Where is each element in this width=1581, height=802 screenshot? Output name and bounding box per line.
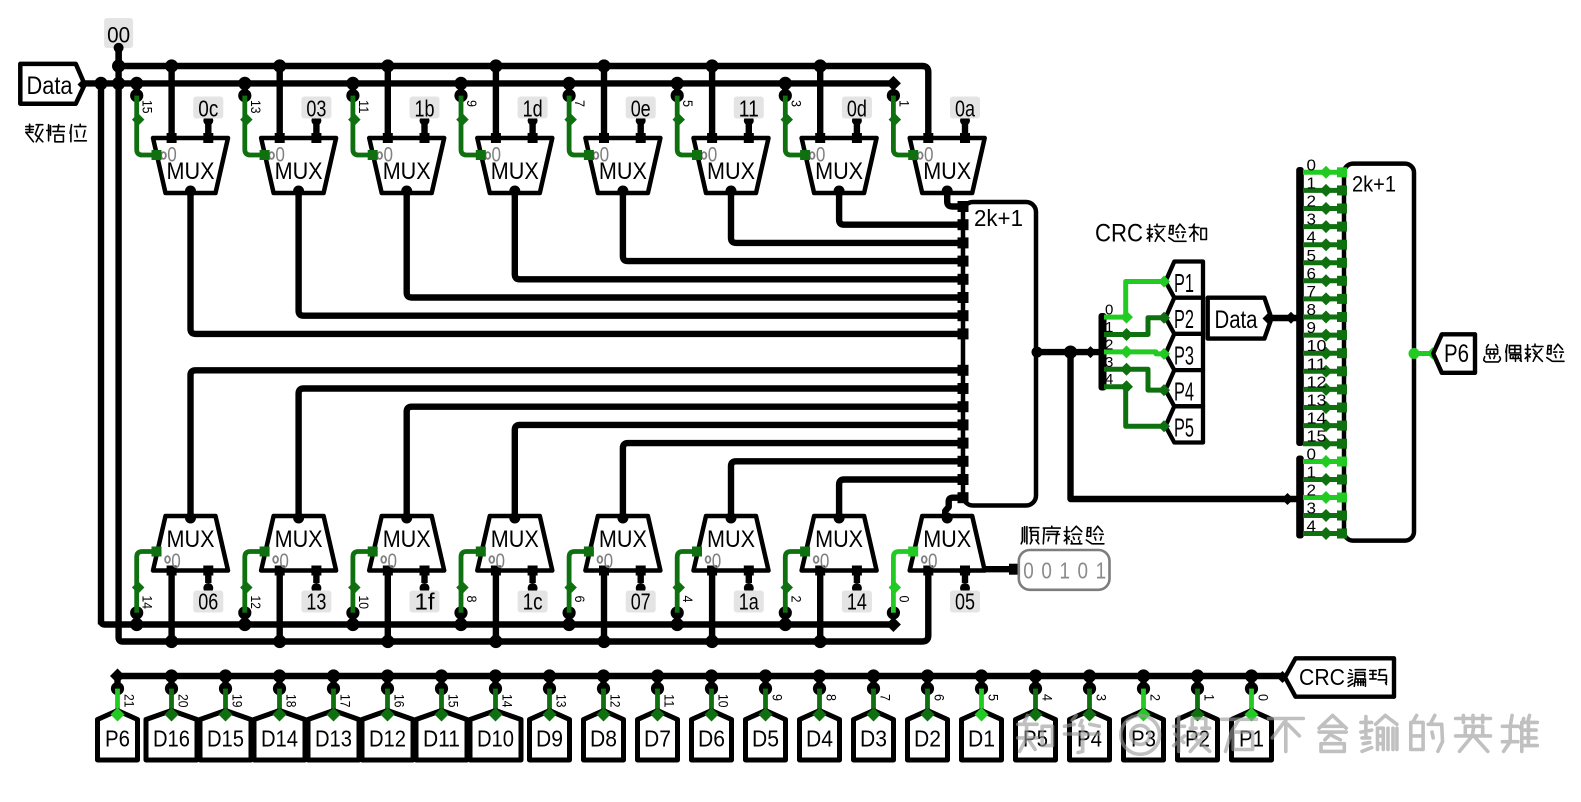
svg-text:D5: D5 bbox=[752, 726, 779, 752]
svg-text:4: 4 bbox=[1040, 694, 1056, 701]
svg-text:CRC: CRC bbox=[1095, 220, 1143, 248]
svg-text:MUX: MUX bbox=[491, 158, 539, 185]
svg-text:D1: D1 bbox=[968, 726, 995, 752]
svg-text:05: 05 bbox=[955, 589, 975, 615]
svg-text:16: 16 bbox=[392, 694, 408, 708]
svg-text:9: 9 bbox=[1307, 320, 1317, 337]
svg-text:6: 6 bbox=[932, 694, 948, 701]
svg-text:D9: D9 bbox=[536, 726, 563, 752]
svg-text:MUX: MUX bbox=[167, 158, 215, 185]
svg-text:5: 5 bbox=[680, 100, 696, 107]
svg-text:0: 0 bbox=[1023, 558, 1034, 584]
svg-text:11: 11 bbox=[739, 96, 759, 122]
svg-text:3: 3 bbox=[788, 100, 804, 107]
svg-text:1: 1 bbox=[1105, 319, 1113, 336]
svg-text:Data: Data bbox=[1215, 306, 1258, 334]
svg-text:D11: D11 bbox=[423, 726, 460, 752]
svg-text:D7: D7 bbox=[644, 726, 671, 752]
svg-text:1: 1 bbox=[1202, 694, 1218, 701]
svg-text:MUX: MUX bbox=[923, 158, 971, 185]
svg-text:12: 12 bbox=[608, 694, 624, 708]
svg-text:8: 8 bbox=[1307, 302, 1317, 319]
svg-text:1c: 1c bbox=[523, 589, 543, 615]
svg-text:2k+1: 2k+1 bbox=[1352, 172, 1396, 197]
svg-text:MUX: MUX bbox=[923, 526, 971, 553]
svg-text:P3: P3 bbox=[1174, 340, 1194, 370]
svg-text:4: 4 bbox=[1105, 371, 1113, 388]
svg-text:D13: D13 bbox=[315, 726, 352, 752]
svg-text:10: 10 bbox=[716, 694, 732, 708]
svg-text:D14: D14 bbox=[261, 726, 298, 752]
svg-text:2: 2 bbox=[1148, 694, 1164, 701]
svg-text:D3: D3 bbox=[860, 726, 887, 752]
svg-text:1: 1 bbox=[1307, 175, 1317, 192]
svg-text:0c: 0c bbox=[198, 96, 218, 122]
svg-text:15: 15 bbox=[140, 100, 156, 114]
svg-text:MUX: MUX bbox=[275, 158, 323, 185]
svg-text:1: 1 bbox=[1307, 465, 1317, 482]
svg-text:D12: D12 bbox=[369, 726, 406, 752]
svg-text:D10: D10 bbox=[477, 726, 514, 752]
svg-text:P4: P4 bbox=[1174, 377, 1194, 407]
svg-text:2k+1: 2k+1 bbox=[974, 205, 1023, 231]
svg-text:P2: P2 bbox=[1174, 304, 1194, 334]
svg-text:12: 12 bbox=[1307, 374, 1327, 391]
svg-text:MUX: MUX bbox=[275, 526, 323, 553]
svg-text:D4: D4 bbox=[806, 726, 833, 752]
svg-text:0: 0 bbox=[1307, 157, 1317, 174]
svg-text:0d: 0d bbox=[847, 96, 867, 122]
svg-text:D2: D2 bbox=[914, 726, 941, 752]
svg-text:0a: 0a bbox=[955, 96, 975, 122]
svg-text:0: 0 bbox=[1307, 447, 1317, 464]
svg-text:8: 8 bbox=[824, 694, 840, 701]
svg-text:13: 13 bbox=[1307, 393, 1327, 410]
svg-text:2: 2 bbox=[788, 596, 804, 603]
svg-text:14: 14 bbox=[500, 694, 516, 708]
svg-text:MUX: MUX bbox=[599, 158, 647, 185]
svg-text:1: 1 bbox=[1096, 558, 1107, 584]
svg-text:13: 13 bbox=[554, 694, 570, 708]
svg-text:MUX: MUX bbox=[491, 526, 539, 553]
svg-text:4: 4 bbox=[1307, 519, 1317, 536]
svg-text:10: 10 bbox=[1307, 338, 1327, 355]
svg-text:10: 10 bbox=[356, 596, 372, 610]
svg-text:MUX: MUX bbox=[383, 158, 431, 185]
svg-text:0: 0 bbox=[1105, 302, 1113, 319]
svg-text:P4: P4 bbox=[1077, 726, 1102, 752]
svg-text:1b: 1b bbox=[415, 96, 435, 122]
svg-text:11: 11 bbox=[662, 694, 678, 708]
svg-text:MUX: MUX bbox=[815, 526, 863, 553]
svg-text:2: 2 bbox=[1105, 336, 1113, 353]
svg-text:D8: D8 bbox=[590, 726, 617, 752]
svg-text:13: 13 bbox=[248, 100, 264, 114]
svg-text:20: 20 bbox=[176, 694, 192, 708]
svg-text:5: 5 bbox=[1307, 248, 1317, 265]
svg-text:D16: D16 bbox=[153, 726, 190, 752]
svg-text:7: 7 bbox=[878, 694, 894, 701]
svg-text:Data: Data bbox=[27, 72, 73, 100]
svg-text:0: 0 bbox=[1256, 694, 1272, 701]
svg-text:21: 21 bbox=[122, 694, 138, 708]
svg-text:MUX: MUX bbox=[383, 526, 431, 553]
svg-text:0e: 0e bbox=[631, 96, 651, 122]
svg-text:13: 13 bbox=[306, 589, 326, 615]
svg-text:3: 3 bbox=[1094, 694, 1110, 701]
svg-text:15: 15 bbox=[1307, 429, 1327, 446]
svg-text:07: 07 bbox=[631, 589, 651, 615]
svg-text:4: 4 bbox=[680, 596, 696, 603]
svg-text:14: 14 bbox=[140, 596, 156, 610]
svg-text:7: 7 bbox=[572, 100, 588, 107]
svg-text:03: 03 bbox=[306, 96, 326, 122]
svg-text:2: 2 bbox=[1307, 483, 1317, 500]
svg-text:P5: P5 bbox=[1174, 413, 1194, 443]
svg-text:3: 3 bbox=[1307, 212, 1317, 229]
svg-text:MUX: MUX bbox=[707, 158, 755, 185]
svg-text:6: 6 bbox=[572, 596, 588, 603]
svg-text:3: 3 bbox=[1307, 501, 1317, 518]
svg-text:0: 0 bbox=[1078, 558, 1089, 584]
svg-text:MUX: MUX bbox=[707, 526, 755, 553]
svg-text:1a: 1a bbox=[739, 589, 759, 615]
svg-text:MUX: MUX bbox=[599, 526, 647, 553]
svg-text:0: 0 bbox=[896, 596, 912, 603]
svg-text:12: 12 bbox=[248, 596, 264, 610]
svg-text:MUX: MUX bbox=[167, 526, 215, 553]
svg-text:17: 17 bbox=[338, 694, 354, 708]
svg-text:6: 6 bbox=[1307, 266, 1317, 283]
svg-text:1f: 1f bbox=[415, 589, 436, 615]
svg-text:4: 4 bbox=[1307, 230, 1317, 247]
svg-text:0: 0 bbox=[1041, 558, 1052, 584]
svg-text:2: 2 bbox=[1307, 194, 1317, 211]
svg-text:7: 7 bbox=[1307, 284, 1317, 301]
svg-text:D15: D15 bbox=[207, 726, 244, 752]
svg-text:18: 18 bbox=[284, 694, 300, 708]
svg-text:P1: P1 bbox=[1174, 268, 1194, 298]
svg-text:9: 9 bbox=[464, 100, 480, 107]
svg-text:19: 19 bbox=[230, 694, 246, 708]
svg-text:15: 15 bbox=[446, 694, 462, 708]
svg-text:P6: P6 bbox=[1444, 340, 1469, 368]
svg-text:CRC: CRC bbox=[1299, 664, 1345, 690]
svg-text:MUX: MUX bbox=[815, 158, 863, 185]
svg-text:D6: D6 bbox=[698, 726, 725, 752]
svg-text:8: 8 bbox=[464, 596, 480, 603]
svg-text:1d: 1d bbox=[523, 96, 543, 122]
svg-text:1: 1 bbox=[896, 100, 912, 107]
svg-text:14: 14 bbox=[847, 589, 867, 615]
svg-text:11: 11 bbox=[356, 100, 372, 114]
svg-text:1: 1 bbox=[1059, 558, 1070, 584]
svg-text:06: 06 bbox=[198, 589, 218, 615]
svg-text:3: 3 bbox=[1105, 354, 1113, 371]
svg-text:5: 5 bbox=[986, 694, 1002, 701]
svg-text:9: 9 bbox=[770, 694, 786, 701]
svg-text:14: 14 bbox=[1307, 411, 1327, 428]
svg-text:11: 11 bbox=[1307, 356, 1327, 373]
svg-text:P6: P6 bbox=[105, 726, 130, 752]
